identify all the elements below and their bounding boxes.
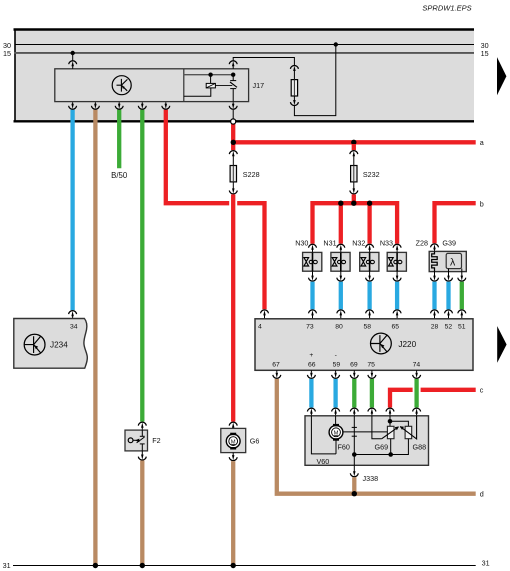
svg-text:31: 31: [3, 561, 11, 570]
svg-text:N32: N32: [352, 239, 365, 248]
svg-text:S228: S228: [243, 170, 260, 179]
svg-text:69: 69: [350, 362, 358, 369]
svg-text:58: 58: [364, 324, 372, 331]
svg-text:65: 65: [392, 324, 400, 331]
svg-text:+: +: [309, 352, 313, 359]
svg-text:51: 51: [458, 324, 466, 331]
svg-text:73: 73: [306, 324, 314, 331]
svg-text:66: 66: [308, 362, 316, 369]
svg-text:34: 34: [70, 324, 78, 331]
svg-text:G69: G69: [375, 443, 389, 452]
svg-text:d: d: [480, 489, 484, 498]
svg-text:28: 28: [431, 324, 439, 331]
svg-text:N30: N30: [295, 239, 308, 248]
svg-text:S232: S232: [363, 170, 380, 179]
svg-text:F2: F2: [152, 436, 160, 445]
svg-text:52: 52: [445, 324, 453, 331]
svg-text:G39: G39: [442, 239, 456, 248]
svg-text:SPRDW1.EPS: SPRDW1.EPS: [422, 4, 471, 13]
svg-text:a: a: [480, 138, 484, 147]
svg-text:N33: N33: [380, 239, 393, 248]
svg-text:15: 15: [3, 49, 11, 58]
svg-text:J17: J17: [253, 81, 265, 90]
svg-text:74: 74: [413, 362, 421, 369]
svg-text:J338: J338: [363, 474, 379, 483]
svg-text:Z28: Z28: [416, 239, 428, 248]
svg-text:4: 4: [258, 324, 262, 331]
svg-text:75: 75: [367, 362, 375, 369]
svg-text:N31: N31: [323, 239, 336, 248]
svg-text:J220: J220: [398, 340, 416, 349]
svg-text:-: -: [335, 352, 337, 359]
svg-text:80: 80: [335, 324, 343, 331]
svg-text:V60: V60: [317, 457, 330, 466]
svg-text:c: c: [480, 386, 484, 395]
svg-text:B/50: B/50: [111, 171, 128, 180]
svg-text:15: 15: [481, 49, 489, 58]
svg-text:59: 59: [333, 362, 341, 369]
svg-text:J234: J234: [50, 341, 68, 350]
svg-text:G6: G6: [250, 437, 260, 446]
svg-text:λ: λ: [450, 256, 456, 268]
svg-text:G88: G88: [413, 443, 427, 452]
svg-text:31: 31: [482, 559, 490, 568]
svg-text:b: b: [480, 199, 484, 208]
svg-text:67: 67: [272, 362, 280, 369]
svg-text:F60: F60: [338, 442, 350, 451]
